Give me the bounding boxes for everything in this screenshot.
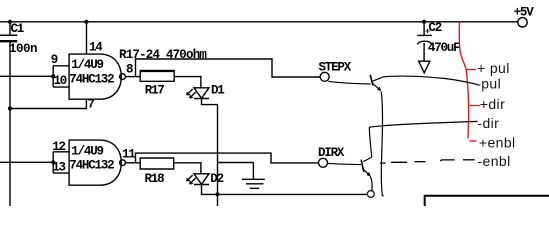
svg-text:R17: R17 [145,83,165,97]
wire D1 cathode to rail [202,99,218,195]
svg-text:DIRX: DIRX [318,146,345,160]
wire gate1 output [125,76,140,78]
wire Q1 collector to -pul [383,76,478,85]
wire Q2 collector to -dir [369,121,477,157]
node STEPX terminal [320,72,329,81]
diode D2 LED [194,174,209,185]
node gate1 output bubble [120,74,126,80]
transistor arrow heads [367,87,382,177]
svg-text:11: 11 [122,148,135,162]
svg-text:7: 7 [88,98,95,112]
svg-text:14: 14 [89,40,103,54]
svg-text:470uF: 470uF [428,41,460,55]
svg-text:R17-24 470ohm: R17-24 470ohm [119,48,207,62]
svg-text:+enbl: +enbl [479,134,516,150]
wire DIRX to Q2 base [328,163,362,164]
svg-text:+5V: +5V [514,6,535,20]
wire red tick +pul [466,69,476,71]
resistor R17 [140,71,174,82]
node junction dots [8,20,426,197]
svg-text:D2: D2 [210,172,223,186]
op-amp U9 gate2 74HC132 [69,140,121,185]
wire D2 cathode bottom [202,185,368,207]
svg-text:100n: 100n [9,42,37,56]
node emitter terminal circle [367,191,374,198]
svg-text:74HC132: 74HC132 [69,72,114,86]
svg-text:+ pul: + pul [477,60,510,76]
svg-text:1/4U9: 1/4U9 [71,58,103,72]
wire STEPX to Q1 base [329,81,371,84]
svg-text:-enbl: -enbl [478,153,511,169]
svg-text:D1: D1 [211,83,224,97]
wire pin14 drop [86,22,88,54]
svg-text:-dir: -dir [477,115,499,131]
svg-text:1/4U9: 1/4U9 [71,144,103,158]
diode D1 LED [194,88,209,99]
ground [242,179,265,188]
node DIRX terminal [319,158,328,167]
svg-text:10: 10 [54,74,67,88]
svg-text:R18: R18 [145,172,165,186]
svg-text:12: 12 [52,140,65,154]
svg-text:+: + [425,26,430,36]
wire R17 to D1 [174,77,201,88]
svg-text:9: 9 [51,53,58,67]
wire red end dash +enbl [469,140,476,142]
svg-text:13: 13 [52,161,65,175]
wire Q2 emitter to terminal [370,176,372,190]
wire top +5V rail [0,21,518,23]
wire red tick +dir [469,105,481,107]
wire gate2 output [125,162,140,164]
svg-text:+dir: +dir [480,96,505,112]
wire ground tap [218,163,254,180]
svg-text:C1: C1 [11,22,24,36]
resistor R18 [140,158,174,169]
svg-text:74HC132: 74HC132 [69,158,114,172]
transistor Q1 [370,75,373,86]
node gate2 output bubble [120,160,126,166]
svg-text:8: 8 [126,63,133,77]
wire pin7 to rail [10,99,86,108]
wire left vertical rail [9,22,11,206]
wire STEPX branch [136,59,321,77]
wire R18 to D2 [174,163,201,174]
svg-text:STEPX: STEPX [319,60,352,74]
capacitor C2 [417,22,432,61]
svg-text:-pul: -pul [476,76,501,92]
transistor Q2 [361,160,364,172]
op-amp U9 gate1 74HC132 [69,54,121,99]
bottom right box [425,196,549,206]
wire gate1 input net [0,66,69,87]
wire -enbl dashed [380,160,475,163]
wire red +5V annotation [459,22,480,141]
wire gate2 input net [0,152,69,173]
capacitor C1 [0,34,17,36]
power +5V terminal [518,18,527,27]
svg-text:C2: C2 [428,21,441,35]
wire DIRX branch [136,153,319,163]
wire Q1 emitter down [381,92,383,197]
